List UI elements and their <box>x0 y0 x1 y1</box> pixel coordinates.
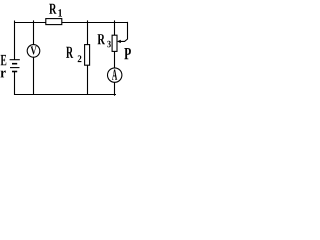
wire ammeter to bottom <box>114 82 116 96</box>
wire R2 branch upper <box>87 20 89 45</box>
label E <box>1 55 7 65</box>
voltmeter V <box>27 45 40 58</box>
battery E r <box>10 60 20 72</box>
wire wiper from top right <box>120 22 127 42</box>
label r <box>1 71 6 78</box>
wire R2 branch lower <box>87 65 89 95</box>
rheostat R3 box <box>112 35 117 51</box>
label P <box>124 48 131 59</box>
wire voltmeter branch lower <box>33 57 35 95</box>
ammeter A <box>108 68 122 82</box>
label R1 <box>49 4 62 17</box>
wire top <box>14 22 128 24</box>
label R3 <box>97 34 110 47</box>
wire left <box>14 21 16 60</box>
wire left lower <box>14 72 16 96</box>
wire bottom <box>14 94 116 96</box>
resistor R2 <box>85 45 90 66</box>
wire voltmeter branch upper <box>33 20 35 45</box>
wire R3 to ammeter <box>114 51 116 68</box>
label R2 <box>66 47 81 62</box>
wiper arrowhead P <box>117 40 121 43</box>
resistor R1 <box>46 19 62 25</box>
wire R3 branch upper <box>114 20 116 35</box>
